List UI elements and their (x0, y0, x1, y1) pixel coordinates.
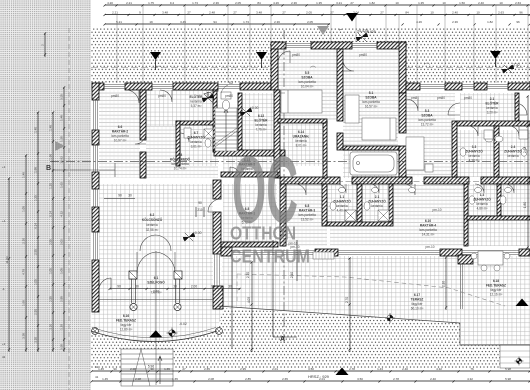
svg-text:ZUHANYZÓ: ZUHANYZÓ (465, 149, 483, 154)
spot elevation markers (x-cross) (167, 30, 524, 365)
dimension line left v3 (37, 112, 39, 352)
terrain texture left band (0, 0, 91, 390)
svg-text:4,38 m²: 4,38 m² (469, 159, 480, 163)
door eloter middle (160, 90, 172, 102)
room FURDO floor (343, 150, 399, 178)
wall mid vertical x277 (274, 90, 280, 178)
canopy dashed line above terrace (237, 274, 505, 306)
svg-text:1.3: 1.3 (480, 193, 485, 197)
svg-text:7,07 m²: 7,07 m² (151, 291, 162, 295)
washbasin pair bathrooms right (339, 136, 512, 193)
section line B horizontal (50, 161, 530, 163)
svg-text:4,80 m²: 4,80 m² (477, 207, 488, 211)
svg-text:4.79: 4.79 (22, 269, 26, 275)
room lower right floor (467, 219, 530, 246)
svg-text:ZUHANYZÓ: ZUHANYZÓ (473, 197, 491, 202)
svg-text:pm80: pm80 (437, 96, 445, 100)
svg-text:1.25: 1.25 (34, 195, 38, 201)
svg-text:SZOBA: SZOBA (301, 76, 313, 80)
svg-text:RAKTÁR-2: RAKTÁR-2 (112, 129, 129, 134)
svg-text:RAKTÁR-3: RAKTÁR-3 (299, 208, 316, 213)
window top-left wall 2 (152, 85, 173, 89)
dimension line left v1 (8, 178, 10, 352)
svg-text:90: 90 (113, 367, 117, 371)
svg-text:1.20: 1.20 (60, 136, 64, 142)
wall eloter2 left (238, 93, 242, 150)
room RAKTAR-2 floor (99, 90, 140, 178)
svg-text:4.32: 4.32 (436, 367, 442, 371)
svg-text:2.10: 2.10 (442, 281, 446, 287)
svg-text:10: 10 (476, 11, 480, 15)
svg-text:1.25: 1.25 (49, 183, 53, 189)
svg-text:27: 27 (233, 11, 237, 15)
svg-text:2.55: 2.55 (49, 239, 53, 245)
kolcsonzo block background (92, 180, 223, 300)
wc middle top (221, 92, 231, 110)
svg-text:2.08: 2.08 (135, 377, 141, 381)
svg-text:fagy.kér: fagy.kér (411, 302, 423, 306)
interior dim numbers (117, 147, 527, 303)
dimension numbers top row3 (116, 20, 520, 24)
svg-text:60,10 m²: 60,10 m² (411, 307, 424, 311)
svg-text:1.82: 1.82 (487, 20, 493, 24)
dimension line bottom row 2 (92, 380, 530, 382)
wing background (271, 42, 406, 90)
dim horizontal raktar2 (104, 198, 135, 200)
svg-text:1.05: 1.05 (49, 268, 53, 274)
room SZOBA 5.3 floor (406, 93, 455, 177)
marker triangle up right terrace (516, 299, 529, 307)
svg-text:+4.425: +4.425 (357, 29, 368, 33)
door zuhanyzo 3.3 (468, 126, 478, 136)
svg-text:pm80: pm80 (411, 96, 419, 100)
door zuhanyzo 1.1 (337, 184, 346, 193)
marker triangle gray section A (317, 26, 329, 35)
wc bowls bathrooms (330, 148, 527, 210)
svg-text:2.55: 2.55 (60, 296, 64, 302)
wall under wing divider furdo (323, 121, 327, 178)
room ZUHANYZO 2.4 floor (498, 130, 530, 177)
svg-text:2.63: 2.63 (523, 147, 527, 153)
svg-text:6.4: 6.4 (178, 153, 183, 157)
svg-text:2.65: 2.65 (204, 367, 210, 371)
svg-text:19: 19 (149, 20, 153, 24)
svg-text:5.98: 5.98 (505, 367, 511, 371)
wall wing left (271, 42, 278, 90)
svg-text:kerámia: kerámia (255, 123, 267, 127)
svg-text:1.20: 1.20 (60, 324, 64, 330)
svg-text:4.26: 4.26 (273, 1, 279, 5)
svg-text:4,40 m²: 4,40 m² (337, 209, 348, 213)
svg-text:3.48: 3.48 (256, 11, 262, 15)
svg-text:1.35: 1.35 (418, 1, 424, 5)
room SZOBA 5.5 floor (278, 49, 337, 120)
svg-text:6.8: 6.8 (305, 204, 310, 208)
room KOZLEKEDO 6.4 floor (146, 126, 218, 178)
staircase main (215, 108, 237, 151)
svg-text:1.66: 1.66 (22, 300, 26, 306)
svg-text:10: 10 (442, 1, 446, 5)
wall corridor horizontal (280, 177, 340, 184)
doormat bottom left of terrace (313, 252, 334, 259)
dimension numbers top row1 (107, 1, 521, 5)
door raktar-3 (295, 184, 306, 195)
svg-text:lam.parketta: lam.parketta (298, 213, 316, 217)
svg-text:5.3: 5.3 (425, 109, 430, 113)
svg-text:3.30: 3.30 (34, 337, 38, 343)
room WC right floor (499, 184, 530, 216)
svg-text:2.78: 2.78 (393, 377, 399, 381)
svg-text:2.95: 2.95 (240, 367, 246, 371)
wall bottom main with window piers (221, 246, 232, 256)
svg-text:2.55: 2.55 (34, 249, 38, 255)
window top-right 2 (462, 85, 474, 89)
svg-text:2.05: 2.05 (307, 20, 313, 24)
svg-text:2.36: 2.36 (213, 1, 219, 5)
room ELOTER-2 floor (240, 93, 274, 150)
szelfogo side wall left (129, 271, 182, 303)
room ZUHANYZO 2.1 floor (362, 184, 393, 222)
svg-text:ELŐTÉR: ELŐTÉR (486, 101, 500, 106)
svg-text:10,97 m²: 10,97 m² (114, 139, 127, 143)
svg-text:27: 27 (380, 11, 384, 15)
svg-text:2.55: 2.55 (49, 296, 53, 302)
interior dim ticks (109, 95, 529, 350)
svg-text:kerámia: kerámia (190, 140, 202, 144)
door raktar-4 (404, 184, 415, 195)
svg-text:ZUHANYZÓ: ZUHANYZÓ (187, 135, 205, 140)
wall top right outer (406, 83, 420, 90)
svg-text:1.75: 1.75 (148, 1, 154, 5)
svg-text:4.12: 4.12 (60, 211, 64, 217)
svg-text:5,37 m²: 5,37 m² (191, 104, 202, 108)
dimension line top-left small (44, 33, 46, 57)
marker triangle down 1 (150, 52, 161, 60)
svg-text:3.50: 3.50 (357, 377, 363, 381)
svg-text:SZÉLFOGÓ: SZÉLFOGÓ (147, 280, 165, 285)
svg-text:5.5: 5.5 (305, 71, 310, 75)
svg-text:KÖZLEKEDŐ: KÖZLEKEDŐ (170, 157, 191, 162)
svg-text:ZUHANYZÓ: ZUHANYZÓ (368, 199, 386, 204)
svg-text:2.85: 2.85 (245, 377, 251, 381)
svg-text:pm80: pm80 (464, 96, 472, 100)
window left wall 3 (94, 189, 98, 207)
room RAKTAR-5 floor (223, 152, 277, 173)
svg-text:1.65: 1.65 (172, 377, 178, 381)
svg-text:pm-10: pm-10 (432, 208, 441, 212)
dimension ticks left (8, 32, 65, 350)
window left wall 2 (94, 145, 98, 172)
svg-text:13,72 m²: 13,72 m² (421, 123, 434, 127)
door zuhanyzo 2.2 (475, 184, 484, 193)
svg-text:2.63: 2.63 (498, 11, 504, 15)
building slab background (92, 83, 530, 256)
svg-text:KÖLCSÖNZŐ: KÖLCSÖNZŐ (142, 217, 163, 222)
svg-text:5.1: 5.1 (369, 91, 374, 95)
svg-text:30: 30 (135, 285, 139, 289)
svg-text:6.18: 6.18 (493, 279, 499, 283)
svg-text:3,20 m²: 3,20 m² (487, 111, 498, 115)
door zuhanyzo 2.4 (509, 126, 519, 136)
svg-text:1.05: 1.05 (22, 206, 26, 212)
room ZUHANYZO 1.1 floor (327, 184, 360, 224)
marker triangle down 2 (256, 52, 267, 60)
svg-text:10,74 m²: 10,74 m² (174, 167, 187, 171)
svg-text:30: 30 (173, 285, 177, 289)
svg-text:SZOBA: SZOBA (365, 96, 377, 100)
svg-text:14,31 m²: 14,31 m² (422, 233, 435, 237)
dim vertical x350 (349, 258, 351, 352)
door eloter right left leaf (448, 103, 460, 115)
dimension line top row 3 (105, 23, 330, 25)
svg-text:-1: -1 (2, 287, 5, 291)
svg-text:pm-10: pm-10 (425, 245, 434, 249)
svg-text:B: B (46, 165, 51, 172)
svg-text:10: 10 (430, 11, 434, 15)
entrance steps white box (500, 345, 530, 368)
svg-text:1.35: 1.35 (316, 1, 322, 5)
svg-text:1.1: 1.1 (340, 195, 345, 199)
svg-text:-0.02: -0.02 (179, 322, 187, 326)
dimension numbers top row2 (112, 11, 523, 15)
svg-text:3.21: 3.21 (336, 1, 342, 5)
dimension numbers left rotated (5, 44, 64, 350)
svg-text:27: 27 (187, 11, 191, 15)
marker triangle up entrance (149, 330, 162, 337)
svg-text:3.50: 3.50 (308, 367, 314, 371)
svg-text:27: 27 (182, 367, 186, 371)
window left wall 4 (94, 232, 98, 260)
svg-text:2.55: 2.55 (34, 309, 38, 315)
dim vertical x528 (527, 96, 529, 250)
svg-text:2.40: 2.40 (290, 272, 294, 278)
svg-text:27: 27 (282, 11, 286, 15)
svg-text:2.40: 2.40 (430, 377, 436, 381)
svg-text:1.48: 1.48 (60, 115, 64, 121)
svg-text:OTTHON: OTTHON (230, 224, 296, 244)
svg-text:6.12: 6.12 (258, 114, 264, 118)
left edge small marks (2, 165, 6, 359)
svg-text:10: 10 (395, 1, 399, 5)
wall szoba53 right (452, 121, 457, 177)
svg-text:96: 96 (516, 20, 520, 24)
svg-text:4.20: 4.20 (107, 1, 113, 5)
svg-text:10,04 m²: 10,04 m² (301, 85, 314, 89)
room ZUHANYZO 6.7 floor (180, 125, 218, 166)
entrance axis line (155, 251, 157, 385)
dim szelfogo horizontal (110, 288, 240, 290)
door wc right (505, 184, 514, 193)
room ELOTER right floor (460, 93, 515, 121)
arc end columns (92, 328, 223, 335)
svg-text:pm80: pm80 (359, 53, 367, 57)
svg-text:6.6: 6.6 (118, 125, 123, 129)
svg-text:90: 90 (118, 194, 122, 198)
svg-text:TERASZ: TERASZ (411, 298, 424, 302)
svg-text:+1: +1 (2, 342, 6, 346)
svg-text:90: 90 (198, 201, 202, 205)
svg-text:1.05: 1.05 (34, 279, 38, 285)
svg-text:41: 41 (95, 375, 99, 379)
svg-text:84: 84 (405, 11, 409, 15)
svg-text:3.3: 3.3 (472, 145, 477, 149)
svg-text:1.65: 1.65 (164, 367, 170, 371)
svg-text:2.65: 2.65 (282, 377, 288, 381)
svg-text:4.32: 4.32 (467, 377, 473, 381)
svg-text:CENTRUM: CENTRUM (230, 247, 310, 267)
property dashed line left vertical (68, 28, 70, 390)
svg-text:2.02: 2.02 (60, 239, 64, 245)
dimension guide verticals from top into plan (117, 5, 528, 83)
svg-text:13,52 m²: 13,52 m² (301, 218, 314, 222)
svg-text:2.63: 2.63 (515, 1, 521, 5)
window top-right 1 (420, 85, 445, 89)
svg-text:96: 96 (519, 11, 523, 15)
svg-text:1.98: 1.98 (34, 167, 38, 173)
svg-text:A: A (280, 336, 285, 343)
terrace table set right (471, 251, 510, 271)
svg-text:4.26: 4.26 (416, 20, 422, 24)
stippled ground bottom region (91, 308, 530, 368)
door kozlekedo left (135, 133, 146, 144)
svg-text:90: 90 (117, 285, 121, 289)
svg-text:2.21: 2.21 (126, 1, 132, 5)
svg-text:6.14: 6.14 (34, 223, 38, 229)
svg-text:6.1: 6.1 (154, 276, 159, 280)
svg-text:1.43: 1.43 (377, 367, 383, 371)
svg-text:±0.00: ±0.00 (250, 106, 259, 110)
svg-text:ZUHANYZÓ: ZUHANYZÓ (504, 149, 522, 154)
door wing 5.1 (343, 60, 354, 71)
svg-text:9.4: 9.4 (170, 1, 175, 5)
dimension ticks top (104, 4, 530, 25)
svg-text:2.30: 2.30 (22, 238, 26, 244)
window bottom wall glazing (232, 251, 315, 255)
wall wing right (399, 42, 406, 93)
svg-text:-2.32: -2.32 (512, 63, 520, 67)
svg-text:lam.parketta: lam.parketta (171, 162, 189, 166)
wardrobe room 5.1 (345, 95, 359, 123)
marker triangle down 3 (490, 51, 501, 59)
svg-text:32,56 m²: 32,56 m² (146, 228, 159, 232)
property dashed line top (91, 67, 530, 69)
wall zuhanyzo 6.7 partitions (176, 121, 218, 125)
vertical dim labels inside terrace (246, 272, 294, 278)
room ZUHANYZO 2.2 floor (467, 184, 497, 216)
svg-text:6.14: 6.14 (49, 211, 53, 217)
svg-text:6.7: 6.7 (194, 131, 199, 135)
svg-text:pm80: pm80 (111, 94, 119, 98)
dim kolcsonzo door (196, 207, 204, 217)
svg-text:lam.parketta: lam.parketta (362, 100, 380, 104)
svg-text:1.45: 1.45 (98, 367, 104, 371)
room ZUHANYZO 3.3 floor (457, 130, 495, 177)
svg-text:16,57 m²: 16,57 m² (365, 105, 378, 109)
wave marks on dashed line (156, 63, 430, 68)
svg-text:2.36: 2.36 (452, 20, 458, 24)
svg-text:-0.62: -0.62 (211, 89, 219, 93)
wall left outer (92, 83, 99, 100)
svg-text:1.05: 1.05 (60, 268, 64, 274)
svg-text:5.96: 5.96 (148, 365, 154, 369)
svg-text:3.30: 3.30 (49, 324, 53, 330)
svg-text:3.30: 3.30 (60, 344, 64, 350)
svg-text:fagy.kér: fagy.kér (490, 288, 502, 292)
dim vertical x252 (251, 262, 253, 352)
dimension line left v4 (52, 112, 54, 352)
svg-text:30: 30 (128, 194, 132, 198)
svg-text:2.00: 2.00 (191, 285, 197, 289)
svg-text:3.38: 3.38 (22, 333, 26, 339)
svg-text:6.17: 6.17 (414, 293, 420, 297)
svg-text:+1: +1 (2, 165, 6, 169)
window top-left wall 3 (218, 85, 240, 89)
svg-text:2.1: 2.1 (375, 195, 380, 199)
svg-text:12.62: 12.62 (60, 156, 64, 164)
svg-text:1.80: 1.80 (523, 202, 527, 208)
dimension numbers bottom (98, 367, 511, 371)
svg-text:6.10: 6.10 (425, 219, 431, 223)
svg-text:1.50: 1.50 (459, 1, 465, 5)
svg-text:K2: K2 (229, 81, 233, 85)
shower 6.7 fixtures (184, 128, 213, 147)
svg-text:210: 210 (197, 208, 203, 212)
svg-text:30: 30 (228, 285, 232, 289)
svg-text:2.40: 2.40 (452, 11, 458, 15)
door zuhanyzo 6.7 (180, 133, 189, 142)
svg-text:84: 84 (257, 1, 261, 5)
wall kolcsonzo right (213, 180, 221, 199)
svg-text:76: 76 (470, 367, 474, 371)
fed terasz top edge line (99, 299, 213, 301)
svg-text:94: 94 (213, 20, 217, 24)
svg-text:12,89 m²: 12,89 m² (120, 328, 133, 332)
wall wing divider (337, 49, 343, 121)
svg-text:10: 10 (499, 1, 503, 5)
svg-text:6.14: 6.14 (298, 130, 304, 134)
window top-right 3 (487, 85, 508, 89)
window left wall 1 (94, 100, 98, 130)
dimension line left v5 (63, 87, 65, 352)
svg-text:2.08: 2.08 (208, 377, 214, 381)
svg-text:2.08: 2.08 (130, 367, 136, 371)
svg-text:1.98: 1.98 (49, 154, 53, 160)
svg-text:2.78: 2.78 (349, 367, 355, 371)
section line A vertical (283, 30, 285, 345)
svg-text:3.15: 3.15 (60, 94, 64, 100)
window wing top 1 (286, 44, 311, 48)
terrace arc edge (91, 331, 217, 342)
svg-text:ZUHANYZÓ: ZUHANYZÓ (333, 199, 351, 204)
bed room 5.5 (281, 90, 322, 113)
terrace floor (TERASZ bottom) (218, 256, 530, 345)
svg-text:2.70: 2.70 (246, 272, 250, 278)
door szelfogo double leaf left (137, 252, 156, 273)
svg-text:1.40: 1.40 (34, 127, 38, 133)
dim vertical x446 right terrace (445, 257, 447, 310)
door szelfogo double leaf right (156, 252, 175, 273)
svg-text:kerámia: kerámia (476, 202, 488, 206)
svg-text:2.40: 2.40 (478, 1, 484, 5)
bathtub furdo (350, 152, 397, 175)
wall raktar2 right (140, 90, 146, 140)
svg-text:1.82: 1.82 (369, 1, 375, 5)
door eloter right right leaf (515, 103, 527, 115)
svg-text:kerámia: kerámia (486, 106, 498, 110)
svg-text:27: 27 (350, 1, 354, 5)
svg-text:1.73: 1.73 (243, 20, 249, 24)
room 6.14 floor (278, 123, 323, 166)
